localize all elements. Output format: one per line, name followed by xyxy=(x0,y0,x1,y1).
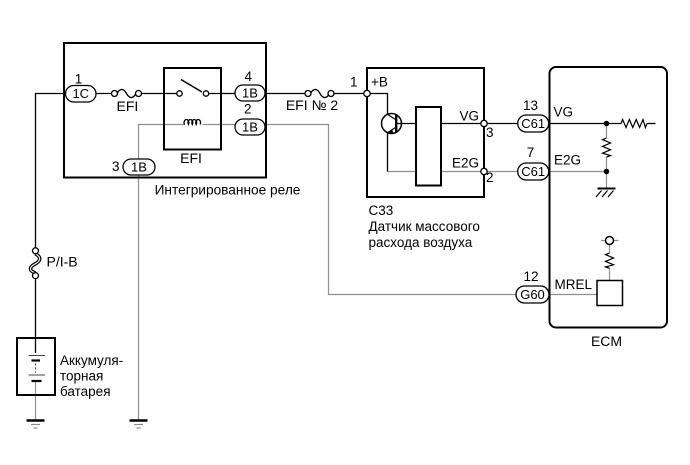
svg-text:MREL: MREL xyxy=(555,277,593,292)
svg-text:13: 13 xyxy=(523,98,538,113)
ground (relay) xyxy=(130,421,148,429)
wire: pin 2 to ECM MREL input via connector G60 (gray) xyxy=(266,125,597,295)
wire: battery positive through fusible link to relay pin 1 xyxy=(36,94,113,249)
svg-text:1B: 1B xyxy=(131,160,147,175)
wire E2G: transistor emitter junction to MAF pin 2 (gray) xyxy=(388,171,485,173)
wire: VG junction to load resistor tail xyxy=(647,123,656,125)
svg-text:4: 4 xyxy=(245,69,253,84)
fusible link P/I-B xyxy=(30,248,39,279)
chassis ground (ECM internal) xyxy=(596,189,616,198)
relay switch blade xyxy=(181,80,202,93)
wire: fuse EFI No.2 to MAF pin 1 xyxy=(333,93,367,95)
wire: relay coil to pin 2 (gray) xyxy=(203,124,267,126)
svg-text:Интегрированное реле: Интегрированное реле xyxy=(155,183,301,198)
svg-text:батарея: батарея xyxy=(60,384,111,399)
MREL driver block xyxy=(597,281,623,306)
connector pin 2 oval 1B xyxy=(235,119,265,135)
junction: E2G node in ECM xyxy=(604,169,610,175)
wire: pin 4 to fuse EFI No.2 xyxy=(265,93,306,95)
svg-text:1B: 1B xyxy=(242,86,258,101)
wire E2G: MAF pin 2 to ECM junction via connector C61 (gray) xyxy=(484,171,607,173)
connector C61 pin 13 xyxy=(518,115,549,132)
svg-text:+B: +B xyxy=(371,75,388,90)
wire VG: MAF pin 3 to ECM junction via connector C61 xyxy=(484,123,621,125)
node: MAF pin 1 (+B) xyxy=(364,90,370,96)
wire: fuse EFI to relay switch xyxy=(141,93,178,95)
battery plates xyxy=(29,356,46,382)
fuse EFI No. 2 xyxy=(305,89,334,97)
junction: VG node in ECM xyxy=(604,121,610,127)
svg-text:C61: C61 xyxy=(521,116,545,131)
svg-text:Аккумуля-: Аккумуля- xyxy=(60,353,123,368)
transistor (MAF internal) xyxy=(382,114,402,134)
resistor: VG load (horizontal) xyxy=(621,120,647,128)
wire: internal supply tick through circle (gray) xyxy=(601,240,619,242)
svg-text:ECM: ECM xyxy=(591,333,622,349)
wire: transistor emitter to E2G rail xyxy=(387,132,389,172)
node: MAF pin 3 (VG) xyxy=(481,120,487,126)
MAF sensing element xyxy=(416,107,441,186)
svg-text:VG: VG xyxy=(554,105,574,120)
svg-text:7: 7 xyxy=(527,145,535,160)
svg-text:1: 1 xyxy=(75,72,83,87)
svg-text:E2G: E2G xyxy=(452,156,479,171)
wire: VG junction to divider resistor (gray) xyxy=(606,124,608,138)
resistor: MREL pull-up (vertical) xyxy=(606,253,614,268)
svg-text:G60: G60 xyxy=(520,287,545,302)
svg-text:12: 12 xyxy=(523,269,538,284)
svg-text:2: 2 xyxy=(486,170,494,185)
internal connection circle (MREL pull-up source) xyxy=(606,237,614,245)
svg-text:1B: 1B xyxy=(242,120,258,135)
connector pin 3 oval 1B xyxy=(123,159,155,175)
svg-text:Датчик массового: Датчик массового xyxy=(369,219,480,234)
svg-text:EFI: EFI xyxy=(180,150,202,166)
wire: battery negative to ground (gray) xyxy=(35,381,37,420)
wire: relay coil to pin 3 and ground (gray) xyxy=(139,125,186,420)
ground (battery) xyxy=(27,421,45,429)
connector pin 4 oval 1B xyxy=(235,85,265,101)
relay unit EFI inner box xyxy=(164,68,221,150)
wire: fusible link to battery xyxy=(35,278,37,353)
svg-text:VG: VG xyxy=(459,108,479,123)
svg-text:E2G: E2G xyxy=(554,153,581,168)
wire: MAF pin 1 +B to transistor collector xyxy=(367,94,388,116)
svg-text:2: 2 xyxy=(244,102,252,117)
wire VG: sensing element to MAF pin 3 xyxy=(440,123,484,125)
connector C61 pin 7 xyxy=(518,163,549,180)
svg-text:C33: C33 xyxy=(369,203,394,218)
wire: MREL pull-up resistor to driver block (gray) xyxy=(609,268,611,281)
integrated relay box xyxy=(64,43,266,178)
svg-text:3: 3 xyxy=(486,125,494,140)
svg-text:1C: 1C xyxy=(72,86,89,101)
relay coil xyxy=(184,120,200,125)
svg-text:1: 1 xyxy=(350,75,358,90)
MAF sensor box C33 xyxy=(367,68,484,197)
battery box xyxy=(17,338,55,395)
connector G60 pin 12 xyxy=(516,286,549,303)
node: MAF pin 2 (E2G) xyxy=(481,168,487,174)
relay switch contact circles xyxy=(177,91,209,96)
svg-text:3: 3 xyxy=(112,159,120,174)
svg-text:C61: C61 xyxy=(521,164,545,179)
wire: internal circle to MREL pull-up resistor (gray) xyxy=(609,245,611,254)
ECM box xyxy=(550,67,668,328)
svg-text:EFI: EFI xyxy=(117,98,139,114)
resistor: VG to E2G divider (vertical) xyxy=(603,138,611,157)
wire: divider resistor to E2G junction (gray) xyxy=(606,157,608,171)
wire: E2G junction to chassis ground (gray) xyxy=(606,172,608,189)
fuse EFI xyxy=(112,89,142,97)
wire: transistor base to sensing element xyxy=(396,123,417,125)
connector pin 1 oval 1C xyxy=(66,86,97,103)
svg-text:торная: торная xyxy=(60,369,103,384)
svg-text:EFI № 2: EFI № 2 xyxy=(286,97,339,113)
wire: relay switch to pin 4 xyxy=(209,93,236,95)
svg-text:расхода воздуха: расхода воздуха xyxy=(369,235,473,250)
svg-text:P/I-B: P/I-B xyxy=(47,254,78,270)
